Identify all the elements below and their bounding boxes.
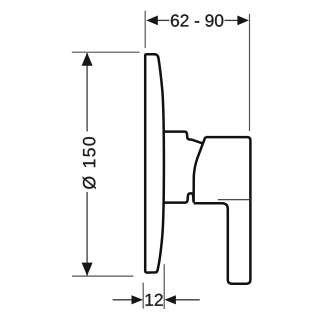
- wire: bottom dimension line left tail: [113, 299, 132, 301]
- node: left dimension bottom arrowhead: [82, 263, 93, 276]
- cartridge cone left edge: [194, 137, 206, 203]
- node: left dimension top arrowhead: [82, 53, 93, 66]
- node: dimension text 62-90: [171, 14, 223, 26]
- wire: top dimension left extension line: [144, 11, 146, 48]
- wire: left dimension line upper segment: [86, 53, 88, 132]
- node: dimension text Ø 150: [83, 137, 96, 189]
- handle joint thin line: [218, 199, 251, 201]
- wire: bottom dimension left extension line: [142, 283, 144, 309]
- wire: top dimension line right tail: [225, 19, 239, 21]
- node: top left arrowhead: [146, 16, 158, 26]
- wire: bottom dimension line right tail: [176, 299, 200, 301]
- wire: bottom dimension right extension line: [163, 264, 165, 309]
- wire: left dimension line lower segment: [86, 192, 88, 276]
- wire: top dimension line left tail: [157, 19, 170, 21]
- node: bottom left arrowhead: [132, 295, 144, 304]
- wire: top dimension right extension line: [249, 14, 251, 131]
- node: bottom right arrowhead: [164, 295, 176, 304]
- wire: left dimension bottom extension line: [72, 275, 134, 277]
- handle body and lever outline: [194, 137, 251, 284]
- wire: left dimension top extension line: [72, 51, 140, 53]
- node: top right arrowhead: [237, 16, 249, 26]
- sleeve top contour line: [164, 132, 203, 144]
- sleeve bottom contour line: [164, 193, 194, 202]
- escutcheon plate side view outline: [145, 54, 164, 272]
- node: dimension text 12: [146, 294, 163, 306]
